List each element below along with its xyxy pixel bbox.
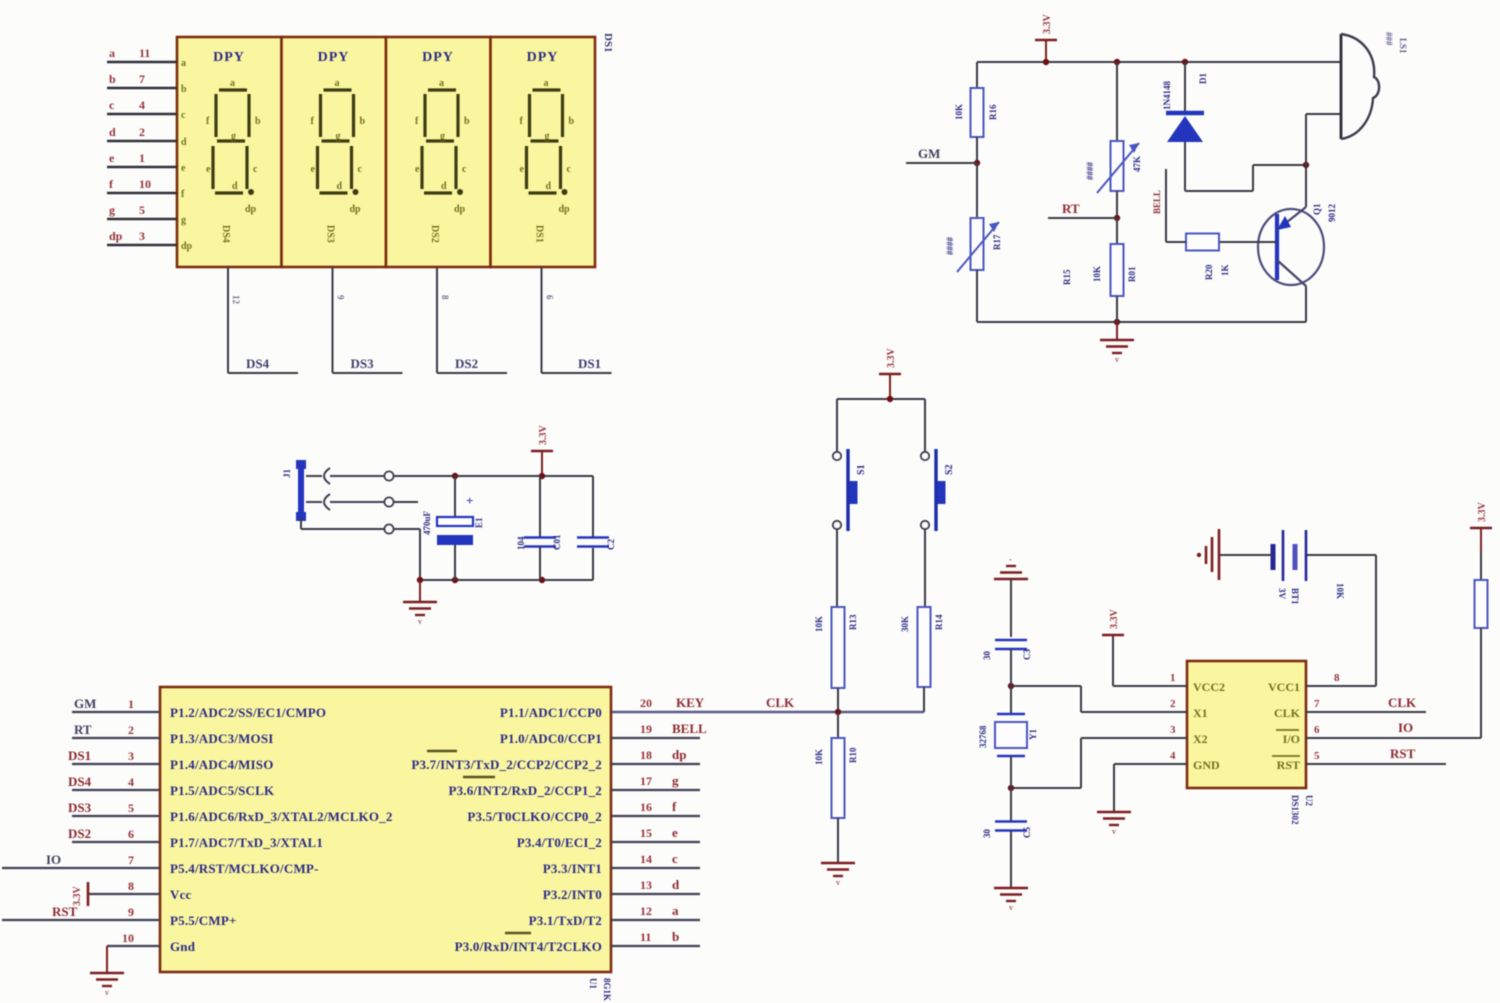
svg-text:b: b xyxy=(181,84,187,95)
svg-text:P3.0/RxD/INT4/T2CLKO: P3.0/RxD/INT4/T2CLKO xyxy=(455,939,602,954)
svg-text:a: a xyxy=(672,903,679,918)
svg-text:DS1: DS1 xyxy=(534,225,545,243)
svg-text:9012: 9012 xyxy=(1327,204,1337,223)
svg-text:RT: RT xyxy=(1062,201,1080,216)
svg-text:P1.0/ADC0/CCP1: P1.0/ADC0/CCP1 xyxy=(500,731,602,746)
svg-text:10K: 10K xyxy=(814,616,824,632)
svg-text:a: a xyxy=(544,78,549,89)
svg-text:1: 1 xyxy=(139,151,145,165)
svg-text:DS2: DS2 xyxy=(455,356,478,371)
svg-text:P1.1/ADC1/CCP0: P1.1/ADC1/CCP0 xyxy=(500,705,602,720)
svg-text:U2: U2 xyxy=(1304,795,1314,806)
svg-text:13: 13 xyxy=(640,878,652,892)
svg-text:1: 1 xyxy=(1170,672,1176,684)
svg-text:DS1: DS1 xyxy=(578,356,601,371)
svg-text:DS1: DS1 xyxy=(68,748,91,763)
svg-text:P1.7/ADC7/TxD_3/XTAL1: P1.7/ADC7/TxD_3/XTAL1 xyxy=(170,835,323,850)
svg-text:DPY: DPY xyxy=(213,50,245,65)
svg-text:dp: dp xyxy=(109,229,123,243)
svg-text:18: 18 xyxy=(640,748,652,762)
svg-text:IO: IO xyxy=(1398,720,1413,735)
svg-text:3: 3 xyxy=(139,229,145,243)
svg-text:b: b xyxy=(360,116,366,127)
svg-text:RST: RST xyxy=(1390,746,1416,761)
svg-text:g: g xyxy=(181,215,186,226)
svg-text:30: 30 xyxy=(982,829,992,839)
svg-text:3: 3 xyxy=(128,749,134,763)
svg-text:BELL: BELL xyxy=(672,721,707,736)
svg-text:4: 4 xyxy=(128,775,134,789)
svg-text:P5.4/RST/MCLKO/CMP-: P5.4/RST/MCLKO/CMP- xyxy=(170,861,319,876)
svg-text:X2: X2 xyxy=(1193,732,1208,746)
svg-text:e: e xyxy=(520,164,525,175)
svg-text:5: 5 xyxy=(1314,750,1320,762)
svg-text:dp: dp xyxy=(181,241,193,252)
svg-text:8G1K: 8G1K xyxy=(602,978,612,1001)
svg-text:c: c xyxy=(253,164,258,175)
svg-text:3V: 3V xyxy=(1277,588,1287,600)
svg-text:104: 104 xyxy=(516,536,526,550)
svg-text:3: 3 xyxy=(1170,724,1176,736)
svg-text:10K: 10K xyxy=(814,749,824,765)
svg-text:dp: dp xyxy=(454,204,466,215)
svg-text:P1.5/ADC5/SCLK: P1.5/ADC5/SCLK xyxy=(170,783,275,798)
svg-text:7: 7 xyxy=(1314,698,1320,710)
svg-text:R17: R17 xyxy=(992,234,1002,250)
svg-text:d: d xyxy=(109,125,116,139)
svg-text:3.3V: 3.3V xyxy=(1477,502,1488,523)
svg-text:a: a xyxy=(335,78,340,89)
svg-text:C3: C3 xyxy=(1022,649,1032,660)
svg-text:10: 10 xyxy=(139,177,151,191)
svg-text:7: 7 xyxy=(128,853,134,867)
svg-text:3.3V: 3.3V xyxy=(886,348,897,369)
svg-text:D1: D1 xyxy=(1198,73,1208,84)
svg-text:e: e xyxy=(181,163,186,174)
svg-text:S1: S1 xyxy=(856,464,867,475)
svg-text:a: a xyxy=(439,78,444,89)
svg-text:20: 20 xyxy=(640,696,652,710)
svg-text:CLK: CLK xyxy=(766,695,795,710)
svg-text:DS3: DS3 xyxy=(68,800,92,815)
svg-text:12: 12 xyxy=(640,904,652,918)
svg-text:v: v xyxy=(836,878,840,887)
svg-text:11: 11 xyxy=(139,46,150,60)
svg-text:9: 9 xyxy=(128,905,134,919)
svg-text:P3.1/TxD/T2: P3.1/TxD/T2 xyxy=(529,913,602,928)
svg-text:DS2: DS2 xyxy=(68,826,91,841)
svg-text:17: 17 xyxy=(640,774,652,788)
svg-text:8: 8 xyxy=(1334,672,1340,684)
svg-text:6: 6 xyxy=(545,295,555,300)
svg-text:RT: RT xyxy=(74,722,92,737)
svg-text:c: c xyxy=(109,98,115,112)
svg-text:5: 5 xyxy=(128,801,134,815)
svg-text:32768: 32768 xyxy=(978,725,988,748)
svg-text:####: #### xyxy=(1085,162,1095,181)
svg-text:b: b xyxy=(109,72,116,86)
svg-text:2: 2 xyxy=(128,723,134,737)
svg-text:Vcc: Vcc xyxy=(170,887,192,902)
svg-text:R14: R14 xyxy=(934,614,944,630)
svg-text:16: 16 xyxy=(640,800,652,814)
svg-text:IO: IO xyxy=(46,852,61,867)
svg-text:v: v xyxy=(1115,355,1119,364)
svg-text:10K: 10K xyxy=(954,104,964,120)
svg-text:10K: 10K xyxy=(1092,266,1102,282)
svg-text:P3.5/T0CLKO/CCP0_2: P3.5/T0CLKO/CCP0_2 xyxy=(467,809,602,824)
svg-text:14: 14 xyxy=(640,852,652,866)
svg-text:d: d xyxy=(337,181,343,192)
svg-text:CLK: CLK xyxy=(1274,706,1301,720)
svg-text:6: 6 xyxy=(1314,724,1320,736)
svg-text:C01: C01 xyxy=(552,534,562,550)
svg-text:c: c xyxy=(181,110,186,121)
svg-text:Y1: Y1 xyxy=(1028,729,1038,740)
svg-text:c: c xyxy=(358,164,363,175)
svg-text:dp: dp xyxy=(350,204,362,215)
svg-text:C5: C5 xyxy=(1022,827,1032,838)
svg-text:g: g xyxy=(440,131,445,142)
svg-text:P3.6/INT2/RxD_2/CCP1_2: P3.6/INT2/RxD_2/CCP1_2 xyxy=(448,783,602,798)
svg-text:DS4: DS4 xyxy=(68,774,92,789)
svg-text:d: d xyxy=(441,181,447,192)
svg-text:c: c xyxy=(672,851,678,866)
svg-text:+: + xyxy=(466,493,473,508)
svg-text:e: e xyxy=(206,164,211,175)
svg-text:f: f xyxy=(672,799,677,814)
svg-text:DS3: DS3 xyxy=(325,225,336,243)
svg-text:DS2: DS2 xyxy=(429,225,440,243)
svg-text:DPY: DPY xyxy=(527,50,559,65)
svg-text:DS1302: DS1302 xyxy=(1290,795,1300,825)
svg-text:1: 1 xyxy=(128,697,134,711)
svg-text:VCC2: VCC2 xyxy=(1193,680,1225,694)
svg-text:d: d xyxy=(546,181,552,192)
svg-text:10K: 10K xyxy=(1335,583,1345,599)
svg-text:a: a xyxy=(181,58,186,69)
svg-text:DS3: DS3 xyxy=(351,356,375,371)
svg-text:e: e xyxy=(311,164,316,175)
svg-text:b: b xyxy=(569,116,575,127)
svg-text:g: g xyxy=(672,773,679,788)
svg-text:8: 8 xyxy=(440,295,450,300)
svg-text:3.3V: 3.3V xyxy=(1109,609,1120,630)
svg-text:30K: 30K xyxy=(900,616,910,632)
svg-text:d: d xyxy=(672,877,680,892)
svg-text:3.3V: 3.3V xyxy=(538,425,549,446)
svg-text:GM: GM xyxy=(918,146,940,161)
svg-text:R01: R01 xyxy=(1127,266,1137,282)
svg-text:a: a xyxy=(109,46,115,60)
svg-text:DS1: DS1 xyxy=(602,33,614,53)
svg-text:-: - xyxy=(1009,555,1012,564)
svg-text:VCC1: VCC1 xyxy=(1268,680,1300,694)
svg-text:P3.4/T0/ECI_2: P3.4/T0/ECI_2 xyxy=(517,835,602,850)
svg-text:9: 9 xyxy=(336,295,346,300)
svg-text:d: d xyxy=(181,137,187,148)
svg-text:dp: dp xyxy=(672,747,686,762)
svg-text:S2: S2 xyxy=(944,464,955,475)
svg-text:R16: R16 xyxy=(988,104,998,120)
svg-text:P1.3/ADC3/MOSI: P1.3/ADC3/MOSI xyxy=(170,731,274,746)
svg-text:19: 19 xyxy=(640,722,652,736)
svg-text:47K: 47K xyxy=(1132,156,1142,172)
svg-text:dp: dp xyxy=(245,204,257,215)
svg-text:P5.5/CMP+: P5.5/CMP+ xyxy=(170,913,237,928)
svg-text:DS4: DS4 xyxy=(246,356,270,371)
svg-text:g: g xyxy=(336,131,341,142)
svg-text:4: 4 xyxy=(139,98,145,112)
svg-text:3.3V: 3.3V xyxy=(1042,14,1053,35)
svg-text:P3.7/INT3/TxD_2/CCP2/CCP2_2: P3.7/INT3/TxD_2/CCP2/CCP2_2 xyxy=(411,757,602,772)
svg-text:11: 11 xyxy=(640,930,651,944)
svg-text:v: v xyxy=(1112,827,1116,836)
svg-text:RST: RST xyxy=(1277,758,1300,772)
svg-text:Q1: Q1 xyxy=(1312,203,1322,215)
svg-text:a: a xyxy=(230,78,235,89)
svg-text:5: 5 xyxy=(139,203,145,217)
svg-text:4: 4 xyxy=(1170,750,1176,762)
svg-text:b: b xyxy=(672,929,679,944)
svg-text:####: #### xyxy=(945,237,955,256)
svg-text:R15: R15 xyxy=(1062,269,1072,285)
svg-text:P1.4/ADC4/MISO: P1.4/ADC4/MISO xyxy=(170,757,274,772)
svg-text:1K: 1K xyxy=(1220,264,1230,276)
svg-text:g: g xyxy=(109,203,115,217)
svg-text:7: 7 xyxy=(139,72,145,86)
svg-text:b: b xyxy=(464,116,470,127)
svg-text:3.3V: 3.3V xyxy=(72,886,83,907)
svg-text:d: d xyxy=(232,181,238,192)
svg-text:e: e xyxy=(672,825,678,840)
svg-text:DPY: DPY xyxy=(318,50,350,65)
svg-text:KEY: KEY xyxy=(676,695,705,710)
svg-text:C2: C2 xyxy=(606,539,616,550)
svg-text:LS1: LS1 xyxy=(1398,38,1408,54)
svg-text:GND: GND xyxy=(1193,758,1220,772)
svg-text:I/O: I/O xyxy=(1283,732,1300,746)
svg-text:DS4: DS4 xyxy=(220,225,231,243)
svg-text:2: 2 xyxy=(139,125,145,139)
svg-text:P3.2/INT0: P3.2/INT0 xyxy=(543,887,602,902)
svg-text:e: e xyxy=(415,164,420,175)
svg-text:J1: J1 xyxy=(282,469,292,479)
svg-text:R20: R20 xyxy=(1204,264,1214,280)
svg-text:DPY: DPY xyxy=(422,50,454,65)
svg-text:c: c xyxy=(462,164,467,175)
svg-text:E1: E1 xyxy=(474,517,484,528)
svg-text:v: v xyxy=(418,617,422,626)
svg-text:b: b xyxy=(255,116,261,127)
svg-text:g: g xyxy=(545,131,550,142)
svg-text:P1.6/ADC6/RxD_3/XTAL2/MCLKO_2: P1.6/ADC6/RxD_3/XTAL2/MCLKO_2 xyxy=(170,809,393,824)
svg-text:dp: dp xyxy=(559,204,571,215)
svg-text:CLK: CLK xyxy=(1388,695,1417,710)
svg-text:e: e xyxy=(109,151,115,165)
svg-text:2: 2 xyxy=(1170,698,1176,710)
svg-text:g: g xyxy=(231,131,236,142)
svg-text:U1: U1 xyxy=(588,978,598,989)
svg-text:P1.2/ADC2/SS/EC1/CMPO: P1.2/ADC2/SS/EC1/CMPO xyxy=(170,705,326,720)
svg-text:15: 15 xyxy=(640,826,652,840)
svg-text:P3.3/INT1: P3.3/INT1 xyxy=(543,861,602,876)
svg-text:470uF: 470uF xyxy=(422,510,432,535)
svg-text:v: v xyxy=(1009,903,1013,912)
svg-text:BT1: BT1 xyxy=(1290,588,1300,605)
svg-text:Gnd: Gnd xyxy=(170,939,196,954)
svg-text:###: ### xyxy=(1384,32,1394,46)
svg-text:12: 12 xyxy=(231,295,241,305)
svg-text:10: 10 xyxy=(122,931,134,945)
svg-text:8: 8 xyxy=(128,879,134,893)
svg-text:1N4148: 1N4148 xyxy=(1162,81,1172,110)
svg-text:X1: X1 xyxy=(1193,706,1208,720)
svg-text:30: 30 xyxy=(982,651,992,661)
svg-text:R13: R13 xyxy=(848,614,858,630)
svg-text:v: v xyxy=(105,988,109,997)
svg-text:c: c xyxy=(567,164,572,175)
svg-text:BELL: BELL xyxy=(1152,190,1162,214)
svg-text:GM: GM xyxy=(74,696,96,711)
svg-text:6: 6 xyxy=(128,827,134,841)
svg-text:R10: R10 xyxy=(848,747,858,763)
